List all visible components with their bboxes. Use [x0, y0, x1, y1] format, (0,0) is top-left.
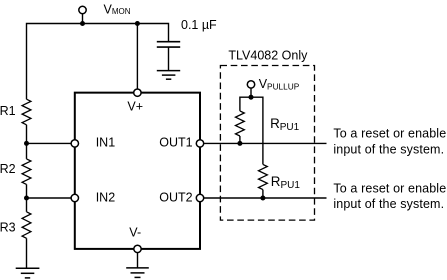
wire R2 to node [26, 184, 28, 198]
wire top rail [27, 24, 169, 100]
svg-text:R3: R3 [0, 220, 16, 234]
svg-text:RPU1: RPU1 [271, 174, 301, 191]
svg-text:R1: R1 [0, 104, 16, 118]
svg-text:IN1: IN1 [96, 136, 116, 150]
junction dot R2/R3 node [24, 196, 29, 201]
note OUT1 destination [333, 127, 446, 157]
pin OUT1 [196, 140, 203, 147]
wire node to IN1 [27, 142, 75, 144]
pin IN1 [71, 140, 78, 147]
junction dot R1/R2 node [24, 141, 29, 146]
wire R3 to ground [26, 238, 28, 268]
junction dot RPU1/OUT1 [237, 141, 242, 146]
terminal VMON [79, 6, 86, 23]
wire RPU1 to OUT1 [239, 136, 241, 143]
wire pullup tee [240, 97, 263, 164]
wire node to R2 [26, 143, 28, 159]
capacitor C1 0.1uF [157, 42, 180, 47]
pin V- [134, 245, 141, 252]
wire V+ branch [136, 24, 138, 93]
resistor R2 [22, 159, 31, 185]
op-amp U1 TLV4082 box [75, 93, 200, 249]
ground below V- [126, 268, 149, 278]
pin V+ [134, 89, 141, 96]
wire V- to ground [137, 253, 139, 268]
svg-text:VMON: VMON [104, 2, 131, 16]
ground below R3 [16, 268, 40, 278]
svg-text:OUT2: OUT2 [159, 190, 192, 204]
wire R1 to node [26, 125, 28, 144]
svg-text:input of the system.: input of the system. [333, 197, 444, 211]
svg-text:input of the system.: input of the system. [333, 142, 444, 156]
terminal VPULLUP [247, 81, 254, 97]
wire RPU1 to OUT2 [262, 190, 264, 198]
junction dot VPULLUP node [249, 95, 254, 100]
resistor R1 [22, 99, 31, 125]
svg-text:IN2: IN2 [96, 190, 116, 204]
wire OUT2 net [200, 197, 327, 199]
svg-text:To a reset or enable: To a reset or enable [333, 127, 446, 141]
resistor R3 [22, 212, 31, 239]
svg-text:R2: R2 [0, 162, 16, 176]
wire OUT1 net [200, 142, 327, 144]
svg-text:RPU1: RPU1 [270, 116, 300, 133]
dashed box TLV4082 only [220, 66, 314, 221]
svg-text:V-: V- [129, 225, 141, 239]
junction dot V+ tap [135, 21, 140, 26]
junction dot RPU1/OUT2 [260, 196, 265, 201]
wire cap to ground [168, 47, 170, 71]
pin IN2 [71, 194, 78, 201]
svg-text:VPULLUP: VPULLUP [259, 77, 300, 92]
junction dot VMON tap [80, 21, 85, 26]
wire node to R3 [26, 198, 28, 212]
svg-text:V+: V+ [127, 100, 143, 114]
note OUT2 destination [333, 181, 446, 211]
pin OUT2 [196, 194, 203, 201]
resistor RPU1 (OUT2 pull-up) [259, 164, 268, 189]
resistor RPU1 (OUT1 pull-up) [236, 111, 245, 136]
ground below capacitor [157, 71, 180, 80]
svg-text:0.1 µF: 0.1 µF [181, 18, 217, 32]
wire node to IN2 [27, 197, 75, 199]
svg-text:OUT1: OUT1 [159, 136, 192, 150]
svg-text:To a reset or enable: To a reset or enable [333, 181, 446, 195]
svg-text:TLV4082 Only: TLV4082 Only [228, 48, 308, 62]
